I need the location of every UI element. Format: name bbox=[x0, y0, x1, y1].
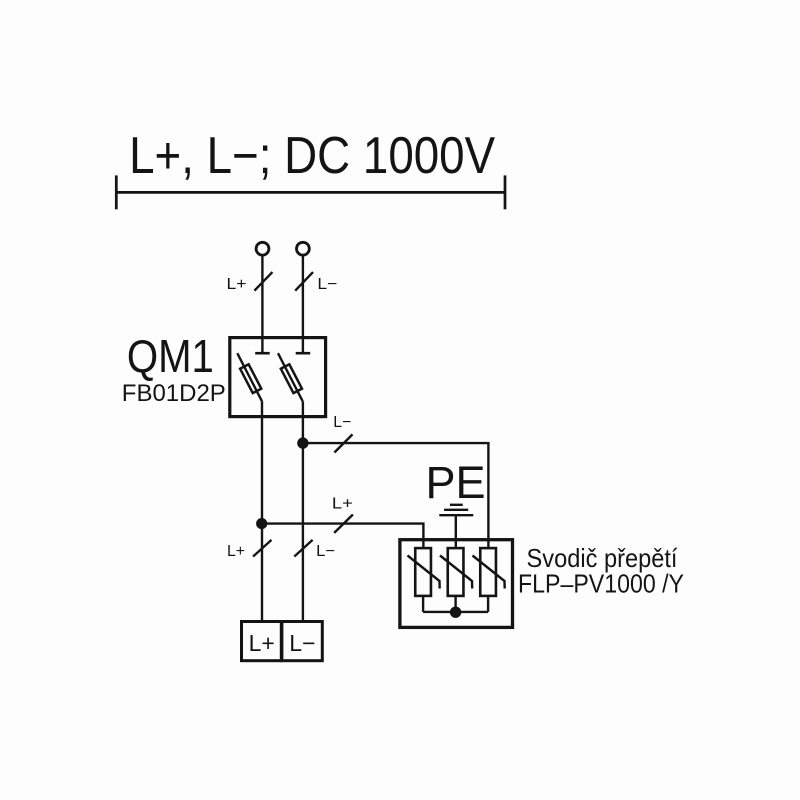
svg-text:L−: L− bbox=[316, 543, 335, 560]
svg-text:L+, L−; DC 1000V: L+, L−; DC 1000V bbox=[129, 126, 496, 184]
svg-text:L+: L+ bbox=[249, 630, 275, 656]
svg-text:PE: PE bbox=[426, 457, 486, 508]
svg-text:L−: L− bbox=[317, 276, 337, 293]
svg-text:L−: L− bbox=[289, 630, 315, 656]
svg-text:L+: L+ bbox=[332, 495, 353, 512]
svg-text:L−: L− bbox=[333, 414, 351, 431]
svg-text:FB01D2P: FB01D2P bbox=[122, 380, 226, 407]
svg-text:QM1: QM1 bbox=[127, 330, 214, 382]
svg-text:L+: L+ bbox=[227, 543, 245, 560]
svg-text:FLP–PV1000 /Y: FLP–PV1000 /Y bbox=[518, 568, 684, 598]
svg-text:L+: L+ bbox=[227, 276, 247, 293]
